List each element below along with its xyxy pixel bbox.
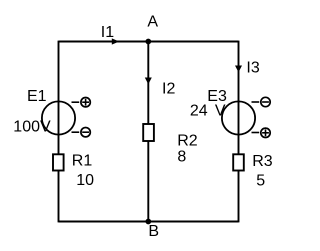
wire middle vertical	[147, 42, 149, 222]
svg-text:A: A	[147, 13, 158, 30]
current arrow I3	[235, 66, 242, 73]
resistor R2	[143, 124, 154, 141]
svg-text:V: V	[215, 102, 226, 119]
svg-text:R1: R1	[72, 153, 93, 170]
svg-text:24: 24	[190, 102, 208, 119]
svg-text:E1: E1	[27, 88, 47, 105]
svg-text:R3: R3	[252, 153, 273, 170]
resistor R1	[53, 154, 64, 170]
svg-text:B: B	[148, 223, 159, 240]
node A junction	[145, 39, 151, 45]
voltage source E3	[222, 97, 270, 137]
svg-text:R2: R2	[177, 132, 198, 149]
svg-text:8: 8	[177, 148, 186, 165]
svg-text:5: 5	[256, 173, 265, 190]
wire left vertical	[58, 41, 60, 223]
node B junction	[145, 219, 151, 225]
svg-text:I1: I1	[101, 24, 114, 41]
svg-text:I3: I3	[246, 59, 259, 76]
svg-text:I2: I2	[162, 80, 175, 97]
voltage source E1	[42, 98, 90, 137]
wire bottom horizontal	[59, 221, 239, 223]
resistor R3	[233, 154, 244, 170]
wire top horizontal	[59, 41, 239, 43]
current arrow I2	[145, 78, 152, 85]
svg-text:10: 10	[76, 172, 94, 189]
svg-text:100V: 100V	[13, 119, 51, 136]
current arrow I1	[112, 38, 119, 44]
wire right vertical	[238, 41, 240, 223]
